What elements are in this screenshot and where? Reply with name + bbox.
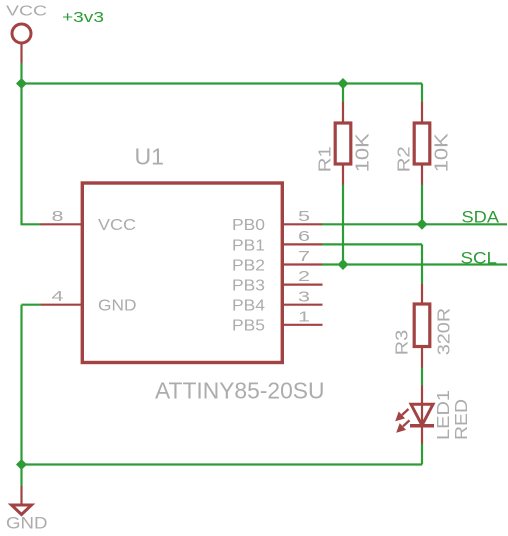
svg-text:8: 8: [52, 208, 64, 225]
pin name PB0: [232, 217, 265, 234]
pin name PB1: [232, 237, 265, 254]
label ATTINY85-20SU: [155, 378, 325, 404]
wire LED to GND rail: [22, 444, 423, 465]
pin name PB5: [232, 318, 265, 335]
label R3: [392, 330, 412, 356]
pin number 3: [298, 288, 310, 305]
wire left rail down to pin 8: [21, 84, 42, 225]
svg-text:+3v3: +3v3: [62, 9, 104, 26]
pin number 8: [52, 208, 64, 225]
pin name PB4: [232, 298, 265, 315]
pin 6 PB1 stub: [282, 243, 323, 245]
pin number 1: [298, 308, 310, 325]
pin 5 PB0 stub: [282, 223, 323, 225]
svg-text:SCL: SCL: [461, 249, 498, 268]
svg-text:U1: U1: [135, 144, 165, 170]
svg-text:PB2: PB2: [232, 257, 265, 274]
svg-text:2: 2: [298, 268, 310, 285]
pin 1 PB5 stub: [282, 324, 323, 326]
wire PB1 to R3: [322, 244, 422, 284]
value 320R: [434, 308, 454, 356]
pin number 7: [298, 248, 310, 265]
ground symbol GND: [12, 486, 32, 515]
pin 8 VCC stub: [41, 223, 82, 225]
wire top VCC rail: [22, 82, 423, 84]
svg-text:LED1: LED1: [433, 390, 453, 440]
svg-text:PB1: PB1: [232, 237, 265, 254]
pin name GND: [98, 298, 137, 315]
junction GND rail left: [16, 459, 27, 470]
junction SDA / R2: [417, 219, 428, 230]
wire pin4 to GND rail: [22, 305, 42, 465]
svg-text:R1: R1: [315, 146, 335, 172]
power symbol VCC: [12, 24, 31, 64]
svg-text:SDA: SDA: [462, 208, 500, 227]
svg-text:RED: RED: [451, 399, 471, 440]
pin number 2: [298, 268, 310, 285]
svg-text:GND: GND: [98, 298, 137, 315]
svg-text:R2: R2: [394, 146, 414, 172]
pin 4 GND stub: [41, 304, 82, 306]
svg-text:5: 5: [298, 208, 310, 225]
junction VCC rail left: [16, 78, 27, 89]
svg-text:10K: 10K: [353, 133, 373, 172]
svg-text:PB4: PB4: [232, 298, 265, 315]
label VCC (supply name): [6, 3, 47, 20]
svg-text:10K: 10K: [432, 133, 452, 172]
value 10K (R2): [432, 133, 452, 172]
label R2: [394, 146, 414, 172]
pin number 6: [298, 228, 310, 245]
LED LED1: [396, 386, 434, 445]
svg-text:PB3: PB3: [232, 278, 265, 295]
pin name PB3: [232, 278, 265, 295]
svg-text:320R: 320R: [434, 308, 454, 356]
svg-text:4: 4: [52, 288, 64, 305]
label GND (ground): [6, 514, 48, 533]
svg-text:6: 6: [298, 228, 310, 245]
pin name PB2: [232, 257, 265, 274]
pin 2 PB3 stub: [282, 284, 323, 286]
svg-text:ATTINY85-20SU: ATTINY85-20SU: [155, 378, 325, 404]
net label SDA: [462, 208, 500, 227]
label R1: [315, 146, 335, 172]
junction SCL / R1: [338, 259, 349, 270]
label LED1: [433, 390, 453, 440]
IC U1 body: [82, 183, 282, 363]
net value +3v3: [62, 9, 104, 26]
svg-text:R3: R3: [392, 330, 412, 356]
wire R2 bottom to SDA: [421, 185, 423, 225]
pin number 4: [52, 288, 64, 305]
wire R1 bottom to SCL: [342, 185, 344, 265]
junction VCC rail at R1: [338, 78, 349, 89]
wire R1 top from rail: [342, 84, 344, 103]
wire drop to GND symbol: [20, 465, 22, 487]
resistor R2: [414, 102, 430, 185]
svg-text:7: 7: [298, 248, 310, 265]
svg-text:VCC: VCC: [6, 3, 47, 20]
svg-text:GND: GND: [6, 514, 48, 533]
value 10K (R1): [353, 133, 373, 172]
pin name VCC: [98, 217, 136, 234]
svg-text:3: 3: [298, 288, 310, 305]
resistor R1: [335, 102, 351, 185]
svg-text:PB5: PB5: [232, 318, 265, 335]
label U1: [135, 144, 165, 170]
resistor R3: [414, 284, 430, 368]
wire net SDA: [322, 223, 507, 225]
svg-text:PB0: PB0: [232, 217, 265, 234]
pin number 5: [298, 208, 310, 225]
pin 7 PB2 stub: [282, 263, 323, 265]
wire net SCL: [322, 263, 507, 265]
net label SCL: [461, 249, 498, 268]
wire VCC drop to rail: [20, 63, 22, 84]
value RED: [451, 399, 471, 440]
svg-text:1: 1: [298, 308, 310, 325]
wire rail corner down to R2: [421, 84, 423, 103]
pin 3 PB4 stub: [282, 304, 323, 306]
wire R3 to LED1: [421, 368, 423, 387]
svg-text:VCC: VCC: [98, 217, 136, 234]
